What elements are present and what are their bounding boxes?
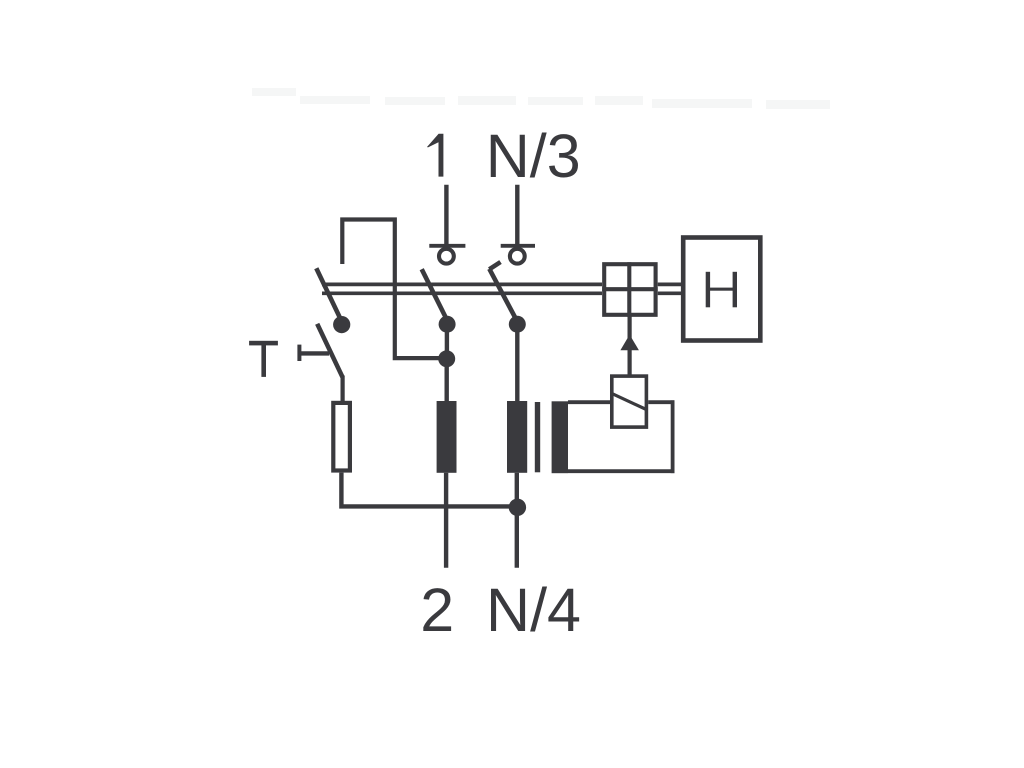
push button T actuator <box>299 345 329 361</box>
label T (test button) <box>249 341 278 377</box>
wire: winding 1 to terminal 2 <box>444 473 448 568</box>
wire: neutral dot to primary winding 2 <box>515 324 519 402</box>
switch contact: neutral pole blade <box>489 269 517 321</box>
svg-text:N/4: N/4 <box>486 576 581 644</box>
handle box H <box>683 238 760 341</box>
terminal 1 (wire, clamp bar, terminal circle) <box>429 185 465 264</box>
node: junction of test bracket with pole 1 <box>438 350 455 367</box>
svg-text:2: 2 <box>420 576 454 644</box>
wire: blade to test resistor <box>341 376 345 402</box>
primary winding pole 1 (toroid) <box>437 401 457 473</box>
wire: winding 2 to terminal N/4 <box>515 473 519 568</box>
faint scan artifact band <box>252 88 830 109</box>
svg-text:N/3: N/3 <box>486 122 581 190</box>
latch mechanism box (quartered square) <box>602 262 658 317</box>
node: pole 1 blade dot <box>439 316 456 333</box>
terminal N/3 (wire, clamp bar, terminal circle) <box>501 185 535 264</box>
wire: junction to primary winding 1 <box>445 359 449 402</box>
wire: resistor to neutral junction <box>341 473 517 507</box>
wire: pole 1 dot to junction <box>445 324 449 359</box>
resistor R (test resistor) <box>333 403 350 471</box>
label H (handle box) <box>706 272 737 308</box>
switch contact: test push contact blade <box>317 324 342 378</box>
node: neutral blade dot <box>509 316 526 333</box>
trip relay (release coil) <box>612 376 647 427</box>
actuating arrow from relay to latch <box>620 316 639 376</box>
secondary winding (thick bar + loop to trip relay) <box>552 400 675 473</box>
wire: test-circuit bracket from pole 1 fixed contact <box>342 220 446 359</box>
mechanical trip bar (double line, left span) <box>322 284 602 293</box>
toroid core bar <box>535 402 540 472</box>
mechanical trip bar (double line, span to H box) <box>658 284 682 293</box>
primary winding neutral pole (toroid) <box>507 401 527 473</box>
terminal label 1 <box>427 134 443 177</box>
switch contact: neutral pole blade hook <box>489 262 500 269</box>
node: junction on N/4 line <box>509 499 526 516</box>
node: test blade pivot dot <box>333 316 350 333</box>
switch contact: pole 1 blade <box>422 269 447 320</box>
switch contact: test circuit upper blade <box>316 268 341 321</box>
